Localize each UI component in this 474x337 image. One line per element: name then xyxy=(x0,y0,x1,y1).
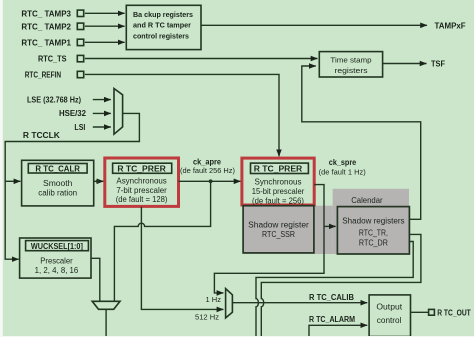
svg-text:RTC_SSR: RTC_SSR xyxy=(262,230,295,239)
wire RTC_REFIN to synchronous prescaler xyxy=(85,74,279,156)
svg-text:Asynchronous: Asynchronous xyxy=(116,177,166,186)
svg-text:1, 2, 4, 8, 16: 1, 2, 4, 8, 16 xyxy=(35,266,79,275)
wire wakeup mux output xyxy=(105,309,107,337)
svg-text:Shadow registers: Shadow registers xyxy=(342,217,404,226)
svg-text:Time stamp: Time stamp xyxy=(330,56,371,65)
svg-text:control registers: control registers xyxy=(133,32,189,41)
svg-text:Calendar: Calendar xyxy=(351,196,383,205)
svg-text:(de fault = 128): (de fault = 128) xyxy=(116,195,168,204)
wire TSF output xyxy=(383,63,427,65)
pin RTC_TAMP3 xyxy=(77,10,83,16)
wire 512 Hz from async prescaler with hop xyxy=(141,207,223,310)
svg-text:7-bit prescaler: 7-bit prescaler xyxy=(116,186,167,195)
wire calendar output A xyxy=(256,242,413,337)
wire LSE into clock mux xyxy=(93,99,111,101)
wire ck_apre branch down to wakeup mux xyxy=(114,181,210,301)
svg-text:control: control xyxy=(377,316,402,325)
svg-text:15-bit prescaler: 15-bit prescaler xyxy=(252,187,305,196)
asynchronous prescaler box RTC_PRER (red) xyxy=(105,158,179,206)
wire RTC_TAMP2 to backup registers xyxy=(85,25,125,27)
svg-text:RTC_REFIN: RTC_REFIN xyxy=(25,70,61,80)
wire calibration to async prescaler xyxy=(94,180,104,182)
wire TAMPxF output xyxy=(201,24,427,26)
svg-text:R TC_CALIB: R TC_CALIB xyxy=(309,293,354,302)
svg-text:TAMPxF: TAMPxF xyxy=(435,22,466,31)
svg-text:Smooth: Smooth xyxy=(43,179,72,188)
svg-text:ck_spre: ck_spre xyxy=(329,158,357,167)
svg-text:and R TC tamper: and R TC tamper xyxy=(133,21,191,30)
backup and tamper control registers box xyxy=(126,5,201,49)
svg-text:R TC_OUT: R TC_OUT xyxy=(437,308,471,317)
pin RTC_OUT xyxy=(429,309,435,315)
svg-text:R TC_PRER: R TC_PRER xyxy=(254,163,303,173)
svg-text:RTC_ TAMP1: RTC_ TAMP1 xyxy=(21,38,71,48)
time stamp registers box xyxy=(319,52,382,77)
wire LSI into clock mux xyxy=(93,126,111,128)
svg-text:R TC_PRER: R TC_PRER xyxy=(117,163,166,173)
wire RTCCLK net xyxy=(5,113,139,259)
svg-text:LSI: LSI xyxy=(74,123,85,132)
page edge strip bottom xyxy=(0,336,474,337)
calibration output mux xyxy=(226,289,233,318)
svg-text:Ba ckup registers: Ba ckup registers xyxy=(133,10,193,19)
svg-text:R TCCLK: R TCCLK xyxy=(23,131,60,140)
output control box xyxy=(369,295,410,337)
svg-text:R TC_CALR: R TC_CALR xyxy=(35,164,80,174)
svg-text:RTC_DR: RTC_DR xyxy=(359,238,388,247)
wire wakeup prescaler to wakeup mux xyxy=(91,258,100,301)
pin RTC_REFIN xyxy=(77,71,83,77)
shadow register RTC_SSR box xyxy=(243,206,314,253)
svg-text:Output: Output xyxy=(376,303,403,312)
svg-text:RTC_TS: RTC_TS xyxy=(38,54,67,64)
wire calendar to time stamp registers xyxy=(302,66,421,219)
svg-text:WUCKSEL[1:0]: WUCKSEL[1:0] xyxy=(31,241,83,251)
svg-text:(de fault 1 Hz): (de fault 1 Hz) xyxy=(319,167,367,176)
svg-text:registers: registers xyxy=(335,66,368,75)
svg-text:1 Hz: 1 Hz xyxy=(206,295,222,304)
wire calendar output B xyxy=(261,234,421,337)
svg-text:calib ration: calib ration xyxy=(38,189,77,198)
smooth calibration box RTC_CALR xyxy=(22,160,94,206)
svg-text:(de fault 256 Hz): (de fault 256 Hz) xyxy=(180,166,235,175)
svg-text:R TC_ALARM: R TC_ALARM xyxy=(309,315,355,324)
svg-text:Shadow register: Shadow register xyxy=(248,220,309,229)
svg-text:TSF: TSF xyxy=(431,60,445,69)
page edge strip left xyxy=(0,0,3,337)
svg-text:RTC_ TAMP2: RTC_ TAMP2 xyxy=(21,21,71,31)
synchronous prescaler box RTC_PRER (red) xyxy=(242,158,314,205)
svg-text:Prescaler: Prescaler xyxy=(40,256,73,265)
svg-text:(de fault = 256): (de fault = 256) xyxy=(252,196,304,205)
pin RTC_TAMP2 xyxy=(77,23,83,29)
pin RTC_TS xyxy=(77,55,83,61)
wire ck_spre branch into shadow registers xyxy=(324,225,336,227)
wire RTC_CALIB with hops xyxy=(232,302,367,304)
svg-text:Synchronous: Synchronous xyxy=(255,178,302,187)
svg-text:HSE/32: HSE/32 xyxy=(59,109,87,118)
svg-text:ck_apre: ck_apre xyxy=(193,157,222,166)
clock source mux xyxy=(114,89,123,135)
wire RTC_TAMP3 to backup registers xyxy=(85,12,125,14)
wire RTC_OUT xyxy=(411,311,429,313)
wakeup mux xyxy=(92,301,120,309)
wire RTC_TS to time stamp registers xyxy=(85,58,318,60)
wire HSE into clock mux xyxy=(93,112,111,114)
wire RTC_TAMP1 to backup registers xyxy=(85,41,125,43)
wakeup prescaler box WUCKSEL xyxy=(20,238,91,278)
wire RTCCLK branch to smooth calibration xyxy=(5,180,20,182)
wire ck_apre to sync prescaler xyxy=(179,180,241,182)
gray calendar backdrop xyxy=(333,189,409,254)
pin RTC_TAMP1 xyxy=(77,39,83,45)
svg-text:RTC_ TAMP3: RTC_ TAMP3 xyxy=(21,8,71,18)
junction ck_apre branch xyxy=(209,179,213,183)
svg-text:RTC_TR,: RTC_TR, xyxy=(359,229,388,238)
svg-text:LSE (32.768 Hz): LSE (32.768 Hz) xyxy=(27,95,81,104)
wire RTC_ALARM xyxy=(309,325,367,337)
wire ck_spre net to 1 Hz mux xyxy=(214,185,324,293)
shadow registers RTC_TR RTC_DR box xyxy=(337,207,409,254)
svg-text:512 Hz: 512 Hz xyxy=(195,312,219,321)
